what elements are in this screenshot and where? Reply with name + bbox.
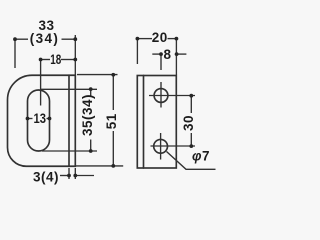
front view: top hole (diameter 7) [154,89,168,103]
dimension 8: hole centre to edge [152,52,186,70]
side view: eye-plate outer outline (rounded D shape) [8,75,76,166]
label 18 [50,52,61,67]
svg-text:20: 20 [152,30,168,45]
dimension 30: hole pitch [189,94,193,148]
centerline cross, bottom hole [151,133,196,160]
label 3(4) [33,170,59,185]
label 8 [163,47,171,62]
dimension 51: overall height [76,73,123,168]
svg-text:13: 13 [34,111,47,126]
centerline cross, top hole [149,82,195,108]
label phi7 [192,148,210,163]
dimension 33/(34): overall width of side view [13,35,77,75]
label 33 [38,18,54,33]
dimension 13: slot width [26,117,52,121]
svg-text:8: 8 [163,47,171,62]
front view: bottom hole (diameter 7) [154,139,168,153]
svg-text:30: 30 [181,115,196,131]
dimension 3(4): plate thickness [60,168,94,179]
svg-text:3(4): 3(4) [33,170,59,185]
label 13 [34,111,47,126]
label 35(34), rotated [80,94,95,136]
dimension 35(34): slot height [40,87,97,153]
dimension 20: front plate width [136,37,179,75]
front view: plate rectangle outline [137,76,176,169]
label 51, rotated [104,113,119,129]
svg-text:(34): (34) [30,31,60,46]
dimension 18: slot offset [39,58,78,106]
svg-text:35(34): 35(34) [80,94,95,136]
svg-text:φ7: φ7 [192,148,210,163]
front view: strap bend line [143,76,145,169]
label (34) [30,31,60,46]
label 20 [152,30,168,45]
label 30, rotated [181,115,196,131]
side view: slot (eye opening, stadium shape) [28,90,50,151]
svg-text:18: 18 [50,52,61,67]
svg-text:51: 51 [104,113,119,129]
side view: base plate inner edge line [68,75,70,166]
leader line for hole diameter phi7 [167,152,216,170]
